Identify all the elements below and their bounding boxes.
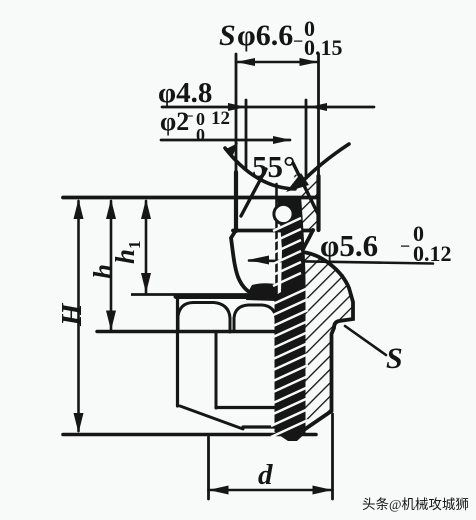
svg-text:S: S: [219, 19, 236, 52]
svg-text:S: S: [386, 342, 403, 375]
svg-text:1: 1: [125, 241, 144, 250]
svg-text:0.15: 0.15: [304, 35, 343, 60]
svg-text:0.12: 0.12: [413, 241, 452, 266]
svg-text:H: H: [56, 302, 88, 327]
svg-text:h: h: [110, 249, 140, 264]
svg-text:−: −: [185, 109, 194, 125]
svg-text:−: −: [293, 31, 303, 51]
svg-text:d: d: [258, 459, 273, 491]
svg-text:φ4.8: φ4.8: [158, 77, 212, 109]
svg-text:φ6.6: φ6.6: [237, 19, 293, 52]
svg-text:12: 12: [211, 108, 230, 129]
svg-text:55°: 55°: [252, 149, 295, 184]
svg-text:φ5.6: φ5.6: [320, 228, 378, 263]
svg-text:0: 0: [196, 125, 205, 145]
svg-text:头条@机械攻城狮: 头条@机械攻城狮: [362, 496, 469, 512]
svg-text:−: −: [400, 236, 410, 256]
svg-text:h: h: [88, 264, 118, 279]
